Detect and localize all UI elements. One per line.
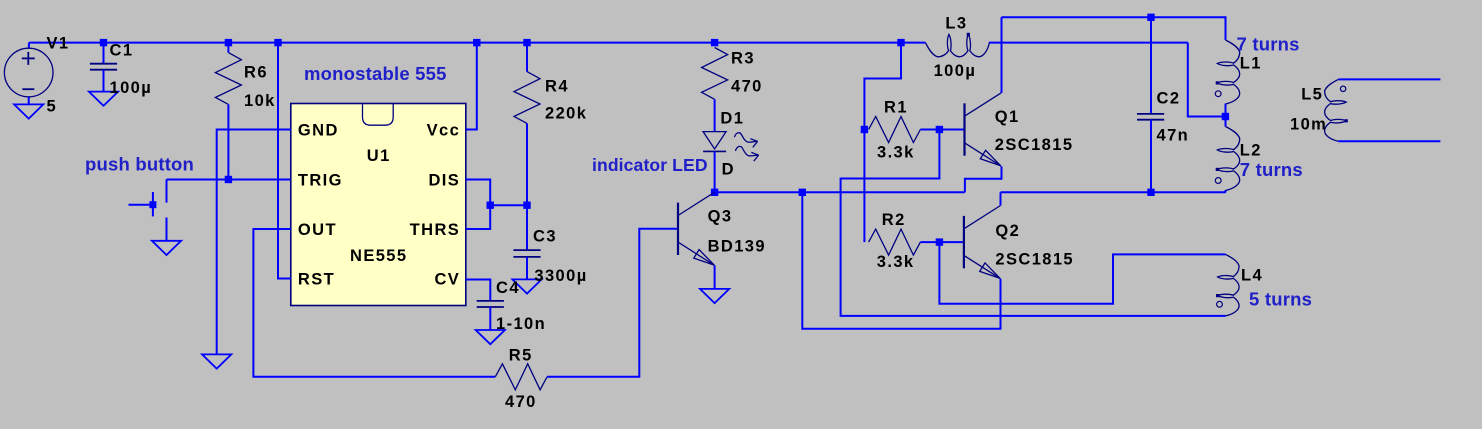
- value 100u (C1): [110, 79, 153, 97]
- junction node D / Q2 emitter branch: [799, 189, 806, 196]
- LED light arrows: [734, 133, 758, 161]
- junction R1 left: [861, 126, 868, 133]
- wire R1 to base junction: [920, 129, 939, 131]
- wire Q1 collector up: [1001, 17, 1003, 93]
- value 1-10n (C4): [496, 315, 546, 333]
- value 5 (V1): [47, 98, 58, 116]
- svg-text:Q3: Q3: [708, 208, 733, 226]
- value 470 (R3): [731, 78, 763, 96]
- pin RST label: [298, 271, 335, 289]
- label C1: [110, 42, 134, 60]
- junction TRIG/R6: [225, 176, 232, 183]
- svg-text:push button: push button: [85, 154, 194, 175]
- label V1: [47, 34, 70, 52]
- wire DIS to node: [466, 180, 490, 206]
- label C3: [533, 228, 557, 246]
- value 10m (L5): [1290, 116, 1327, 134]
- label L1: [1240, 55, 1262, 73]
- wire Q1 emitter to node D: [965, 166, 1002, 192]
- wire RST to rail: [278, 43, 291, 279]
- value 220k (R4): [545, 105, 587, 123]
- svg-text:C4: C4: [496, 279, 520, 297]
- capacitor C2: [1137, 17, 1164, 192]
- wire Vcc pin to rail: [466, 43, 477, 130]
- resistor R1: [869, 117, 921, 143]
- svg-text:CV: CV: [434, 271, 460, 289]
- value 3300u (C3): [534, 267, 587, 285]
- wire rail to R1: [864, 43, 901, 130]
- wire +5V supply rail: [29, 42, 901, 44]
- ground (V1): [14, 97, 43, 119]
- value 470 (R5): [505, 393, 537, 411]
- wire R1 left to R2 left: [863, 130, 865, 243]
- junction node D: [711, 189, 718, 196]
- junction C2 bottom: [1147, 189, 1154, 196]
- junction DIS/THRS: [487, 202, 494, 209]
- LED D1: [703, 132, 726, 193]
- label R6: [244, 64, 268, 82]
- svg-text:L4: L4: [1241, 267, 1263, 285]
- junction C1/rail: [100, 39, 107, 46]
- wire Q2 base to L4 top: [939, 242, 1225, 304]
- svg-text:47n: 47n: [1157, 127, 1190, 145]
- svg-text:5 turns: 5 turns: [1249, 289, 1312, 310]
- value 2SC1815 (Q1): [995, 136, 1074, 154]
- svg-text:3.3k: 3.3k: [877, 253, 915, 271]
- svg-text:L5: L5: [1301, 86, 1323, 104]
- phase dot L4: [1217, 301, 1223, 307]
- svg-text:OUT: OUT: [298, 221, 337, 239]
- IC U1 NE555 body: [291, 104, 466, 306]
- wire tank bottom: [1001, 191, 1226, 193]
- svg-text:220k: 220k: [545, 105, 587, 123]
- wire CV to C4: [466, 280, 491, 301]
- comment monostable 555: [304, 63, 447, 84]
- ground (push button): [152, 241, 181, 255]
- capacitor C3: [513, 205, 540, 279]
- value 100u (L3): [934, 62, 977, 80]
- label L4: [1241, 267, 1263, 285]
- pin THRS label: [410, 221, 461, 239]
- label Q1: [995, 108, 1020, 126]
- svg-text:BD139: BD139: [708, 238, 766, 256]
- value 2SC1815 (Q2): [995, 251, 1074, 269]
- svg-text:L3: L3: [945, 15, 967, 33]
- wire Q3 emitter to ground: [714, 265, 716, 289]
- voltage source V1: [4, 43, 53, 97]
- svg-text:2SC1815: 2SC1815: [995, 251, 1074, 269]
- svg-text:1-10n: 1-10n: [496, 315, 546, 333]
- wire R2 to Q2 base: [939, 241, 964, 243]
- label R2: [882, 211, 906, 229]
- svg-text:R6: R6: [244, 64, 268, 82]
- label R1: [884, 99, 908, 117]
- ground (U1 GND pin): [202, 354, 231, 368]
- svg-text:3300µ: 3300µ: [534, 267, 587, 285]
- pin Vcc label: [427, 122, 461, 140]
- inductor L2: [1216, 117, 1240, 193]
- ground (C3): [512, 279, 541, 293]
- svg-text:U1: U1: [367, 147, 391, 165]
- resistor R3: [702, 48, 728, 132]
- inductor L3: [901, 33, 1188, 57]
- junction R3/rail: [711, 39, 718, 46]
- pin DIS label: [428, 172, 460, 190]
- svg-text:100µ: 100µ: [934, 62, 977, 80]
- inductor L4: [1216, 254, 1239, 316]
- value 3.3k (R2): [877, 253, 915, 271]
- label D1: [720, 110, 744, 128]
- ground (C4): [476, 330, 505, 344]
- svg-text:470: 470: [731, 78, 763, 96]
- wire GND pin to ground: [217, 130, 291, 355]
- comment 7 turns (L1): [1237, 34, 1300, 55]
- resistor R5: [495, 364, 547, 390]
- junction RST/rail: [274, 39, 281, 46]
- junction R6/rail: [225, 39, 232, 46]
- junction R4/rail: [523, 39, 530, 46]
- wire Q2 emitter down: [802, 192, 1000, 328]
- wire Q2 collector up: [1000, 192, 1002, 205]
- svg-text:Q1: Q1: [995, 108, 1020, 126]
- capacitor C1: [90, 43, 117, 92]
- comment indicator LED: [592, 155, 708, 175]
- value 10k (R6): [244, 92, 276, 110]
- svg-text:470: 470: [505, 393, 537, 411]
- svg-text:indicator LED: indicator LED: [592, 155, 708, 175]
- label L5: [1301, 86, 1323, 104]
- label L3: [945, 15, 967, 33]
- resistor R4: [514, 43, 540, 206]
- comment push button: [85, 154, 194, 175]
- svg-text:R3: R3: [731, 50, 755, 68]
- label U1: [367, 147, 391, 165]
- svg-text:TRIG: TRIG: [298, 172, 343, 190]
- label C2: [1157, 90, 1181, 108]
- capacitor C4: [477, 301, 504, 330]
- value 47n (C2): [1157, 127, 1190, 145]
- ground (C1): [89, 92, 118, 106]
- junction Vcc/rail: [473, 39, 480, 46]
- phase dot L5: [1340, 86, 1345, 91]
- svg-text:Q2: Q2: [995, 222, 1020, 240]
- phase dot L1: [1215, 91, 1221, 97]
- svg-text:Vcc: Vcc: [427, 122, 461, 140]
- pin GND label: [298, 122, 339, 140]
- svg-text:R2: R2: [882, 211, 906, 229]
- label C4: [496, 279, 520, 297]
- wire node D horizontal: [715, 191, 965, 193]
- svg-text:100µ: 100µ: [110, 79, 153, 97]
- svg-text:10m: 10m: [1290, 116, 1327, 134]
- transistor Q2 2SC1815: [964, 206, 1001, 279]
- svg-text:V1: V1: [47, 34, 70, 52]
- resistor R2: [869, 229, 921, 255]
- label Q2: [995, 222, 1020, 240]
- pin TRIG label: [298, 172, 343, 190]
- svg-text:C1: C1: [110, 42, 134, 60]
- svg-text:C2: C2: [1157, 90, 1181, 108]
- junction centre tap L1/L2: [1222, 113, 1229, 120]
- inductor L5: [1325, 79, 1441, 141]
- value BD139 (Q3): [708, 238, 766, 256]
- wire DIS/THRS node: [490, 204, 527, 206]
- wire R2 to base junction: [920, 241, 939, 243]
- wire THRS to node: [466, 205, 490, 229]
- push button switch: [129, 180, 167, 241]
- svg-text:L2: L2: [1240, 142, 1262, 160]
- junction node/R4/C3: [523, 202, 530, 209]
- svg-text:monostable 555: monostable 555: [304, 63, 447, 84]
- svg-text:2SC1815: 2SC1815: [995, 136, 1074, 154]
- phase dot L2: [1215, 178, 1221, 184]
- label Q3: [708, 208, 733, 226]
- comment 7 turns (L2): [1240, 159, 1303, 180]
- node label D: [722, 161, 735, 179]
- wire OUT to R5: [253, 229, 495, 377]
- inductor L1: [1216, 40, 1240, 117]
- svg-text:DIS: DIS: [428, 172, 460, 190]
- svg-text:3.3k: 3.3k: [877, 144, 915, 162]
- label R3: [731, 50, 755, 68]
- svg-text:THRS: THRS: [410, 221, 461, 239]
- label R5: [509, 347, 533, 365]
- wire R5 to Q3 base: [547, 229, 678, 377]
- wire R1 to Q1 base: [939, 129, 964, 131]
- svg-text:R4: R4: [545, 78, 569, 96]
- comment 5 turns (L4): [1249, 289, 1312, 310]
- wire L3 to centre tap: [1188, 43, 1226, 117]
- svg-text:D: D: [722, 161, 735, 179]
- svg-text:7 turns: 7 turns: [1237, 34, 1300, 55]
- junction L3/rail: [897, 39, 904, 46]
- pin CV label: [434, 271, 460, 289]
- svg-text:R1: R1: [884, 99, 908, 117]
- pin OUT label: [298, 221, 337, 239]
- transistor Q1 2SC1815: [965, 93, 1002, 166]
- transistor Q3 BD139: [678, 192, 715, 265]
- svg-text:GND: GND: [298, 122, 339, 140]
- resistor R6: [215, 43, 241, 180]
- junction R2 right / Q2 base: [936, 238, 943, 245]
- svg-text:D1: D1: [720, 110, 744, 128]
- svg-text:5: 5: [47, 98, 58, 116]
- value 3.3k (R1): [877, 144, 915, 162]
- wire tank top: [1002, 17, 1226, 40]
- wire Q1 base to L4 bottom: [841, 130, 1226, 316]
- svg-text:C3: C3: [533, 228, 557, 246]
- label L2: [1240, 142, 1262, 160]
- svg-text:7 turns: 7 turns: [1240, 159, 1303, 180]
- svg-text:R5: R5: [509, 347, 533, 365]
- svg-text:L1: L1: [1240, 55, 1262, 73]
- svg-text:RST: RST: [298, 271, 335, 289]
- wire TRIG net: [167, 179, 291, 181]
- ground (Q3): [700, 289, 729, 303]
- junction C2 top: [1147, 14, 1154, 21]
- value NE555: [350, 247, 407, 265]
- svg-text:10k: 10k: [244, 92, 276, 110]
- svg-text:NE555: NE555: [350, 247, 407, 265]
- label R4: [545, 78, 569, 96]
- junction R1 right / Q1 base: [936, 126, 943, 133]
